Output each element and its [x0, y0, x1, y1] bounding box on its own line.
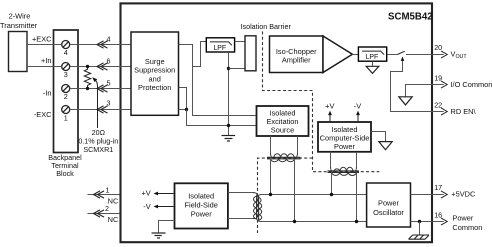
transformer T1 excitation: [267, 136, 301, 222]
pin 17 chevron: [441, 191, 447, 198]
isolation barrier branch through T1: [258, 158, 313, 233]
-V arrow field side: [143, 202, 174, 211]
wire +In transmitter to terminal 3: [27, 66, 62, 68]
wire LPF1 to input isolation transformer: [235, 41, 245, 43]
I/O common triangle: [399, 97, 412, 105]
ground field-side power: [152, 221, 175, 239]
LPF U3: [358, 47, 386, 61]
output switch blade: [397, 51, 404, 54]
svg-text:SCM5B42: SCM5B42: [388, 11, 433, 22]
-V arrow computer side: [354, 102, 361, 122]
svg-text:+In: +In: [41, 56, 51, 65]
svg-text:Power: Power: [191, 210, 212, 219]
svg-text:5: 5: [107, 78, 111, 87]
ground field analog: [222, 136, 236, 142]
svg-text:Power: Power: [452, 213, 473, 222]
svg-text:Suppression: Suppression: [134, 66, 175, 75]
svg-text:Transmitter: Transmitter: [0, 21, 38, 30]
svg-text:-In: -In: [43, 89, 52, 98]
terminal 3: [62, 63, 70, 71]
arrow on wire 6: [97, 63, 108, 70]
wire pin 19 I/O common: [406, 85, 444, 97]
pin 2 NC stub: [88, 204, 120, 224]
arrow on wire 4: [97, 41, 108, 48]
svg-text:2: 2: [105, 204, 109, 213]
wire surge lower outputs (net Q): [179, 88, 187, 110]
wire field-side power to T3 upper: [228, 192, 253, 194]
svg-text:+V: +V: [141, 189, 150, 198]
svg-text:Oscillator: Oscillator: [373, 208, 404, 217]
chassis ground power common: [409, 222, 429, 240]
wire oscillator top rail: [262, 194, 367, 196]
svg-text:SCMXR1: SCMXR1: [83, 145, 113, 154]
svg-text:Isolation Barrier: Isolation Barrier: [241, 22, 292, 31]
svg-text:-V: -V: [354, 102, 361, 111]
junction T2 lower left: [330, 193, 333, 196]
svg-text:6: 6: [107, 56, 111, 65]
svg-text:2: 2: [64, 92, 68, 101]
pin 1 NC stub: [88, 185, 120, 205]
pin 22 chevron: [441, 108, 447, 115]
svg-text:Iso-Chopper: Iso-Chopper: [276, 47, 317, 56]
svg-text:Block: Block: [56, 169, 74, 178]
junction T1 lower left: [269, 193, 272, 196]
wire 6 terminal block to surge block: [70, 66, 131, 68]
svg-text:3: 3: [64, 70, 68, 79]
wire oscillator bottom rail: [262, 221, 367, 223]
pin 16 chevron: [441, 218, 447, 225]
RD EN arrowhead at switch: [401, 57, 405, 61]
junction resistor bottom on wire 5: [86, 87, 89, 90]
svg-text:and: and: [149, 74, 161, 83]
transformer T2 power: [328, 152, 360, 222]
svg-text:Protection: Protection: [138, 83, 171, 92]
power oscillator: [367, 183, 411, 227]
svg-text:Isolated: Isolated: [188, 192, 214, 201]
junction resistor top on wire 6: [86, 65, 89, 68]
surge suppression and protection block: [131, 32, 179, 115]
isolated computer-side power: [318, 122, 371, 152]
junction net R lower: [227, 124, 230, 127]
junction net Q: [185, 108, 188, 111]
svg-text:LPF: LPF: [366, 54, 379, 61]
svg-text:LPF: LPF: [213, 45, 226, 52]
svg-text:Amplifier: Amplifier: [282, 56, 311, 65]
svg-text:17: 17: [434, 183, 442, 192]
wire junction to input transformer lower pin: [229, 68, 246, 70]
svg-text:16: 16: [434, 210, 442, 219]
svg-text:+EXC: +EXC: [32, 34, 52, 43]
arrow on wire 3: [97, 106, 108, 113]
+V arrow field side: [141, 189, 174, 198]
wire LPF2 to output switch: [387, 54, 398, 56]
terminal 1: [62, 106, 70, 114]
svg-text:1: 1: [64, 114, 68, 123]
computer-side common triangle: [371, 132, 392, 150]
iso-chopper amplifier U2: [270, 36, 353, 73]
svg-text:NC: NC: [108, 196, 119, 205]
svg-text:Common: Common: [452, 223, 482, 232]
junction T2 lower right: [355, 220, 358, 223]
terminal 4: [62, 41, 70, 49]
svg-text:RD EN\: RD EN\: [451, 107, 477, 116]
svg-text:Power: Power: [334, 142, 355, 151]
svg-text:2-Wire: 2-Wire: [9, 12, 31, 21]
svg-text:Power: Power: [378, 199, 399, 208]
RD EN control wire to switch: [391, 60, 432, 112]
isolated field-side power: [175, 183, 228, 228]
svg-text:NC: NC: [108, 215, 119, 224]
junction T1 lower right: [293, 220, 296, 223]
wire amplifier to LPF2: [352, 54, 358, 56]
wire LPF1 common leg (net R): [228, 52, 230, 135]
svg-text:I/O Common: I/O Common: [451, 80, 492, 89]
svg-text:19: 19: [434, 73, 442, 82]
input isolation coupler: [245, 36, 256, 71]
transformer T3 field: [253, 193, 262, 222]
svg-text:4: 4: [107, 35, 111, 44]
resistor SCMXR1 20 ohm: [84, 67, 90, 89]
module outline SCM5B42: [121, 3, 433, 242]
svg-text:Field-Side: Field-Side: [185, 201, 218, 210]
svg-text:22: 22: [434, 100, 442, 109]
LPF U1: [206, 38, 234, 52]
wire pin 17 +5VDC: [411, 194, 444, 196]
label 20ohm 0.1% plug-in SCMXR1 with leader arrow: [78, 77, 118, 154]
terminal 2: [62, 85, 70, 93]
svg-text:+V: +V: [325, 102, 334, 111]
isolated excitation source: [257, 106, 309, 136]
isolation barrier dashed line: [263, 32, 380, 172]
wire field-side power to T3 lower: [228, 218, 253, 220]
+V arrow computer side: [325, 102, 334, 122]
pin 19 chevron: [441, 81, 447, 88]
wire switch to pin 20: [406, 54, 444, 56]
wire 5 terminal block to surge block: [70, 88, 131, 90]
svg-text:1: 1: [106, 185, 110, 194]
svg-text:-V: -V: [143, 202, 150, 211]
wire 3 terminal block to surge block: [70, 109, 131, 111]
svg-text:4: 4: [64, 48, 68, 57]
junction power common ground: [418, 220, 421, 223]
wire pin 16 power common: [411, 221, 444, 223]
svg-text:+5VDC: +5VDC: [451, 190, 476, 199]
junction net R upper: [227, 67, 230, 70]
wire branch to LPF input: [193, 42, 207, 67]
svg-text:Surge: Surge: [145, 57, 165, 66]
svg-text:Source: Source: [271, 125, 294, 134]
backpanel terminal block: [48, 30, 82, 178]
wire surge output to LPF and excitation source (net P): [179, 45, 257, 116]
wire +EXC transmitter to terminal 4: [27, 44, 62, 46]
pin 20 chevron: [441, 51, 447, 58]
svg-text:20: 20: [434, 43, 442, 52]
analog common triangle under LPF2: [366, 61, 379, 73]
wire pin 22 stub: [431, 111, 444, 113]
svg-text:3: 3: [107, 99, 111, 108]
arrow on wire 5: [97, 85, 108, 92]
svg-text:-EXC: -EXC: [34, 110, 52, 119]
2-wire transmitter: [0, 12, 38, 72]
wire 4 terminal block to surge block: [70, 44, 131, 46]
